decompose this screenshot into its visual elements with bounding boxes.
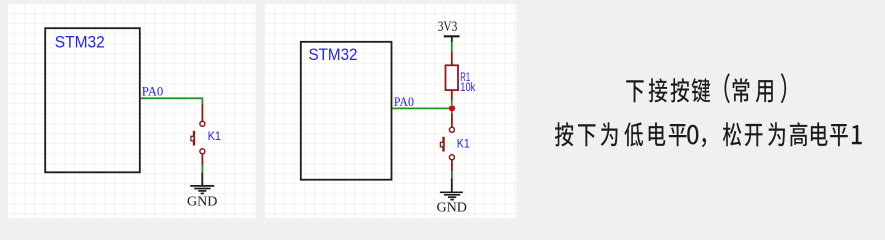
svg-text:PA0: PA0 <box>394 94 414 109</box>
push button K1 (left) <box>191 104 205 166</box>
svg-text:10k: 10k <box>460 82 475 94</box>
svg-text:STM32: STM32 <box>309 46 358 64</box>
ground symbol (right) <box>440 178 463 199</box>
label K1 (right) <box>457 138 470 151</box>
wire R1 to node <box>451 101 453 106</box>
svg-text:STM32: STM32 <box>55 34 105 52</box>
wire PA0 to K1 (left) <box>141 98 203 104</box>
net label PA0 (left) <box>142 83 164 98</box>
resistor R1 <box>446 52 459 101</box>
left schematic panel <box>8 4 256 218</box>
right schematic panel <box>265 4 516 218</box>
label GND (right) <box>437 199 468 214</box>
wire 3V3 to R1 <box>451 42 453 52</box>
MCU box STM32 (right) <box>301 42 392 180</box>
svg-text:K1: K1 <box>208 130 221 143</box>
junction node PA0 <box>449 105 455 111</box>
wire node to K1 <box>451 111 453 113</box>
push button K1 (right) <box>440 113 454 171</box>
value label 10k <box>460 82 475 94</box>
power port 3V3 bar <box>444 36 460 42</box>
caption line 1 <box>626 73 786 103</box>
label GND (left) <box>187 194 218 209</box>
svg-text:PA0: PA0 <box>142 83 164 98</box>
svg-text:3V3: 3V3 <box>438 19 458 35</box>
svg-text:GND: GND <box>187 194 218 209</box>
label STM32 (left) <box>55 34 105 52</box>
net label PA0 (right) <box>394 94 414 109</box>
power port 3V3 label <box>438 19 458 35</box>
wire K1 to GND (right) <box>451 172 453 178</box>
ground symbol (left) <box>190 172 214 193</box>
MCU box STM32 (left) <box>45 28 140 172</box>
label STM32 (right) <box>309 46 358 64</box>
label R1 <box>460 72 470 84</box>
caption line 2 <box>555 122 862 147</box>
wire K1 to GND (left) <box>201 166 203 173</box>
label K1 (left) <box>208 130 221 143</box>
svg-text:GND: GND <box>437 199 468 214</box>
wire PA0 to node (right) <box>392 107 452 109</box>
svg-text:K1: K1 <box>457 138 470 151</box>
